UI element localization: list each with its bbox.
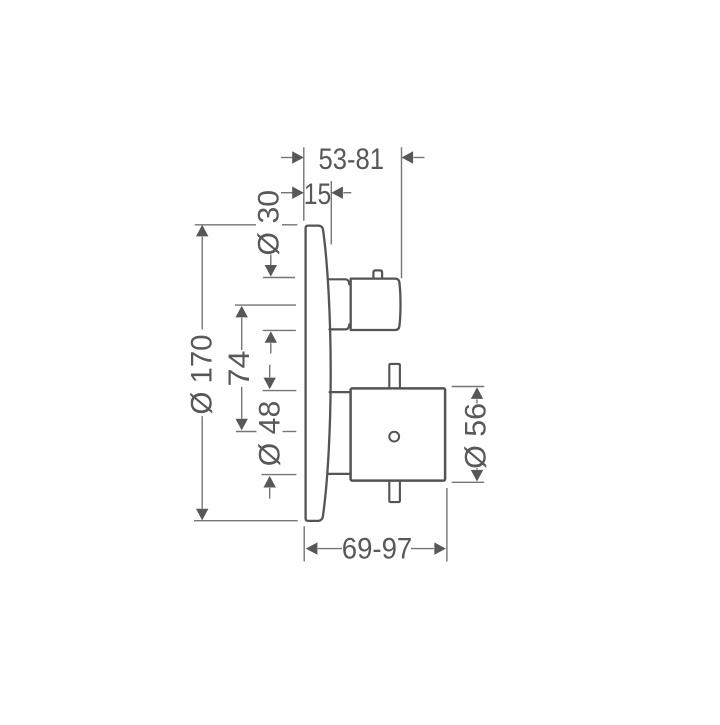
lower knob bottom tab xyxy=(389,482,400,503)
dimension 53-81 : extension line right xyxy=(401,147,403,278)
lower knob top tab xyxy=(389,364,400,388)
upper knob top tab xyxy=(373,270,382,278)
dimension 15 : extension line right xyxy=(330,181,332,244)
dimension 53-81 : extension line left xyxy=(303,147,305,221)
dimension D48 : extension lines xyxy=(262,391,297,475)
escutcheon plate (side view) xyxy=(306,226,331,521)
svg-text:69-97: 69-97 xyxy=(342,533,413,566)
svg-text:74: 74 xyxy=(223,351,256,387)
svg-text:Ø 30: Ø 30 xyxy=(252,190,285,256)
svg-text:Ø 170: Ø 170 xyxy=(185,335,218,415)
svg-text:53-81: 53-81 xyxy=(319,143,385,176)
dimension 69-97 : dimension line with arrows xyxy=(306,542,446,554)
upper knob body xyxy=(351,279,401,330)
dimension 74 : extension lines xyxy=(235,305,296,431)
dimension 53-81 : right arrow and tail xyxy=(402,151,425,163)
dimension D170 : dimension line with arrows xyxy=(196,225,208,521)
svg-text:Ø 48: Ø 48 xyxy=(254,401,287,467)
svg-text:15: 15 xyxy=(304,178,332,211)
dimension D56 : dimension line with arrows xyxy=(471,387,483,481)
upper knob neck xyxy=(329,279,349,329)
dimension D30 : dimension line and arrows xyxy=(265,255,277,354)
dimension 74 : dimension line with arrows xyxy=(236,306,248,431)
dimension 15 : right arrow and tail xyxy=(331,187,351,199)
svg-text:Ø 56: Ø 56 xyxy=(459,403,492,469)
lower knob center dot xyxy=(389,432,399,442)
dimension 15 : left arrow and tail xyxy=(281,187,304,199)
lower knob body xyxy=(351,388,446,480)
dimension D48 : top outside arrow xyxy=(264,365,276,389)
dimension D30 : extension ticks xyxy=(263,278,296,331)
dimension D48 : bottom outside arrow xyxy=(264,476,276,499)
dimension 53-81 : left arrow and tail xyxy=(281,151,304,163)
dimension D170 : extension lines xyxy=(194,225,298,521)
dimension D56 : extension lines xyxy=(452,387,485,483)
dimension 69-97 : extension lines xyxy=(304,488,447,562)
lower knob neck xyxy=(329,392,350,474)
